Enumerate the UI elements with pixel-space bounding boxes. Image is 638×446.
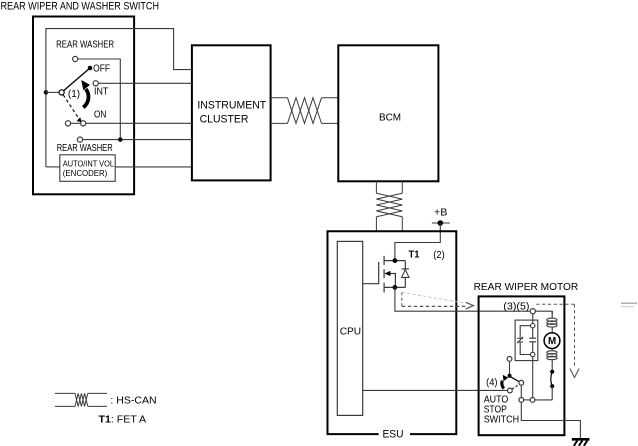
svg-text:BCM: BCM <box>379 112 401 124</box>
switch pivot <box>59 90 64 95</box>
svg-text:SWITCH: SWITCH <box>484 415 519 426</box>
CPU box <box>337 241 362 415</box>
svg-text:OFF: OFF <box>93 64 110 75</box>
ground <box>572 438 590 441</box>
motor coil top <box>551 311 553 318</box>
svg-text:T1: FET A: T1: FET A <box>99 414 147 426</box>
motor M1 <box>544 333 560 349</box>
svg-text:AUTO/INT VOL: AUTO/INT VOL <box>63 158 114 168</box>
body diode branch <box>404 261 406 288</box>
rotation arrow (1) <box>83 89 88 107</box>
node: washer junction <box>118 137 123 142</box>
svg-text:: HS-CAN: : HS-CAN <box>110 394 156 406</box>
switch lever alternate position (dashed) <box>63 95 79 120</box>
svg-text:REAR WASHER: REAR WASHER <box>57 143 113 154</box>
dashed flow line from (3)(5) <box>536 303 574 305</box>
source lead <box>384 286 405 288</box>
svg-text:CLUSTER: CLUSTER <box>200 113 249 125</box>
instrument cluster box <box>192 45 271 180</box>
wire T1 source to rear wiper motor <box>395 287 530 311</box>
svg-text:REAR WASHER: REAR WASHER <box>56 40 114 51</box>
contact OFF <box>88 66 93 71</box>
auto stop switch input pin <box>508 388 513 393</box>
wire ON to instrument cluster <box>71 122 81 124</box>
wire terminal to motor coil <box>535 311 552 315</box>
wire coil to motor contact <box>551 359 553 370</box>
capacitor C (plates) <box>532 328 534 338</box>
svg-text:ESU: ESU <box>383 428 404 440</box>
transistor T1 (FET) <box>363 256 406 293</box>
switch lever <box>64 69 89 90</box>
wire common to pivot <box>46 91 59 93</box>
+B node <box>438 220 444 226</box>
wire INT to instrument cluster <box>98 82 192 84</box>
legend HS-CAN twisted pair symbol <box>55 393 107 406</box>
svg-text:REAR WIPER AND WASHER SWITCH: REAR WIPER AND WASHER SWITCH <box>1 1 160 13</box>
wire capacitor unit to bottom wire <box>532 357 534 398</box>
bottom wire <box>524 399 530 401</box>
svg-text:(4): (4) <box>486 377 497 388</box>
svg-text:ON: ON <box>94 110 106 121</box>
svg-text:(3)(5): (3)(5) <box>503 301 529 312</box>
wire switch common to instrument cluster <box>46 29 192 167</box>
HS-CAN twisted pair (instrument cluster to BCM) <box>271 98 339 124</box>
+B terminal bar <box>432 222 450 224</box>
node T1 source <box>393 285 398 290</box>
gate lead <box>363 262 379 284</box>
signal flow wedge (dashed) <box>401 292 403 306</box>
BCM box <box>338 45 438 181</box>
motor contact lever <box>551 372 552 387</box>
svg-text:(ENCODER): (ENCODER) <box>63 168 108 178</box>
contact ON (right) <box>81 121 86 126</box>
wire encoder left <box>46 166 60 168</box>
rear wiper and washer switch module box <box>33 17 134 195</box>
auto stop switch rest contact <box>507 357 512 362</box>
drain lead <box>384 260 405 262</box>
wire +B to T1 drain <box>395 223 440 260</box>
bottom wire pin (right) <box>530 398 535 403</box>
motor terminal (3)(5) <box>530 309 535 314</box>
HS-CAN twisted pair (BCM to ESU) <box>376 181 402 231</box>
wire to ground <box>521 402 580 438</box>
wire encoder to instrument cluster <box>115 166 192 168</box>
channel bar segments <box>383 256 385 265</box>
svg-text:INSTRUMENT: INSTRUMENT <box>197 100 266 112</box>
wire washer row to instrument cluster <box>83 139 192 141</box>
auto stop switch contact <box>519 380 524 385</box>
rear wiper motor box <box>479 296 565 435</box>
svg-text:T1: T1 <box>409 248 420 260</box>
wire rest contact to pivot <box>509 361 511 374</box>
svg-text:(1): (1) <box>68 89 80 100</box>
svg-text:+B: +B <box>434 207 447 219</box>
auto stop switch lever <box>510 377 519 382</box>
auto stop switch alternate position (dashed) <box>512 384 519 389</box>
substrate arrowhead <box>384 271 390 276</box>
contact INT <box>93 81 98 86</box>
capacitor unit box <box>515 320 538 361</box>
substrate lead <box>388 274 396 288</box>
wire motor contact to bottom wire <box>551 386 553 400</box>
wire switch contact down <box>520 385 522 397</box>
rotation arrow (4) <box>502 381 504 389</box>
svg-text:(2): (2) <box>433 249 445 261</box>
bottom wire pin (left) <box>519 398 524 403</box>
auto/int vol encoder box <box>60 155 115 182</box>
faint page-edge dashes <box>621 302 637 304</box>
ESU box <box>328 231 457 434</box>
auto stop switch pivot node <box>508 374 512 378</box>
contact ON (left) <box>65 121 70 126</box>
body diode triangle <box>402 270 409 278</box>
motor contact node (bottom) <box>550 384 554 388</box>
motor contact node (top) <box>550 370 554 374</box>
breaker element (left branch) <box>520 326 530 338</box>
svg-text:M: M <box>548 336 556 347</box>
capacitor unit top pin <box>531 324 535 328</box>
body diode cathode bar <box>402 268 409 270</box>
wire CPU to auto stop switch <box>363 389 508 391</box>
svg-text:CPU: CPU <box>340 326 361 338</box>
node T1 drain <box>393 258 398 263</box>
wire terminal to capacitor unit <box>532 314 534 324</box>
wire washer top terminal to washer row <box>78 59 121 140</box>
washer bottom terminal <box>77 137 82 142</box>
svg-text:REAR WIPER MOTOR: REAR WIPER MOTOR <box>474 282 579 293</box>
capacitor unit bottom pin <box>531 352 535 356</box>
svg-text:INT: INT <box>94 87 108 98</box>
motor coil bottom <box>551 349 553 352</box>
washer top terminal <box>73 56 78 61</box>
node: junction on common wire <box>44 90 49 95</box>
